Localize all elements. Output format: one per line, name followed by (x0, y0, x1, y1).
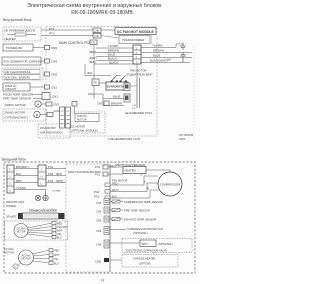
wire A3 (14, 182, 38, 184)
svg-text:PG4: PG4 (94, 190, 100, 194)
svg-text:UNIT: UNIT (179, 137, 186, 141)
svg-text:BLACK(WHT): BLACK(WHT) (150, 59, 167, 63)
svg-text:PIPE TEMP. SENSOR: PIPE TEMP. SENSOR (3, 97, 31, 101)
svg-text:CN5: CN5 (51, 73, 57, 77)
svg-text:НЕ ИЗМЕНЯЕМ ПОЗ.1: НЕ ИЗМЕНЯЕМ ПОЗ.1 (125, 111, 153, 115)
wire L2 brown (96, 52, 133, 54)
wire display to CN2 (30, 86, 45, 88)
svg-text:Внутренний блок: Внутренний блок (3, 18, 32, 22)
svg-text:BLUE: BLUE (113, 95, 120, 99)
svg-text:WHT: WHT (112, 188, 118, 192)
ground G2 (180, 53, 186, 63)
svg-text:CRANKCASE HEATER: CRANKCASE HEATER (29, 209, 57, 213)
evaporator box (106, 82, 128, 90)
svg-text:(WHT): (WHT) (56, 180, 63, 183)
PCB right edge bus (109, 164, 111, 272)
svg-text:EVAPORATOR: EVAPORATOR (107, 84, 126, 88)
svg-text:PT2: PT2 (49, 32, 55, 36)
DC motor optional dashed box (70, 112, 105, 133)
wire jumper1 to CN9 (41, 60, 45, 62)
svg-text:EXHAUST TEMP. SENSOR: EXHAUST TEMP. SENSOR (124, 218, 156, 222)
svg-text:POWER BD: POWER BD (6, 46, 23, 50)
outdoor terminal block B (38, 165, 46, 186)
wire sensor box to PT connectors (41, 29, 93, 31)
fan motor pin labels (132, 105, 136, 110)
svg-text:MOTOR: MOTOR (77, 118, 87, 122)
svg-text:BLU: BLU (16, 172, 21, 176)
svg-text:TRANSFORMER: TRANSFORMER (122, 38, 144, 42)
connector CN5 (45, 72, 50, 76)
svg-text:BLU: BLU (112, 194, 117, 198)
svg-text:V: V (144, 179, 146, 183)
wire V white (105, 190, 110, 194)
svg-text:7M: 7M (93, 81, 97, 85)
svg-text:YL/GRN: YL/GRN (152, 44, 162, 48)
dc fan dashed box (5, 221, 68, 240)
svg-text:CN: CN (91, 41, 95, 45)
svg-text:COMPRESSOR PROTECTOR: COMPRESSOR PROTECTOR (127, 227, 163, 231)
svg-text:(OPTIONAL MODULE): (OPTIONAL MODULE) (71, 129, 98, 133)
wire R4 black (141, 62, 190, 64)
wire B3 (46, 182, 66, 184)
transformer box (119, 36, 150, 44)
svg-text:FAN MOTOR: FAN MOTOR (130, 69, 147, 73)
svg-text:WHT: WHT (54, 254, 60, 257)
ac fan terminal boxes (49, 249, 53, 252)
wire L1 yl/grn (96, 47, 133, 49)
svg-text:ИК ПРИЕМНИК ДИСПЛ.: ИК ПРИЕМНИК ДИСПЛ. (5, 29, 37, 33)
svg-text:YL/GRN: YL/GRN (16, 186, 26, 190)
svg-text:CN5: CN5 (96, 229, 102, 233)
svg-text:RED: RED (54, 250, 59, 253)
svg-text:RED: RED (110, 165, 116, 169)
svg-text:CN2: CN2 (96, 219, 102, 223)
svg-text:CN9: CN9 (51, 60, 57, 64)
fuse in sensor box (7, 34, 36, 36)
svg-text:COMPRESSOR: COMPRESSOR (160, 183, 180, 187)
swing motor optional dashed box (3, 109, 53, 121)
thermal switch S2 (117, 76, 127, 83)
svg-text:CN2: CN2 (94, 35, 99, 38)
dc fan terminal boxes (52, 222, 56, 225)
jumper box 1 (2, 57, 41, 65)
svg-text:YL/GRN: YL/GRN (108, 44, 118, 48)
svg-text:ЭЛ.НАГР.: ЭЛ.НАГР. (6, 216, 17, 219)
compressor (158, 172, 182, 196)
svg-text:AC FAN: AC FAN (4, 247, 13, 251)
svg-text:FOR DC: FOR DC (77, 114, 87, 118)
wire air clean to CN5 (43, 73, 45, 75)
connector CN2 (45, 85, 50, 89)
fan motor assembly (124, 78, 140, 108)
wire B1 (46, 168, 66, 170)
svg-text:C: C (14, 265, 16, 269)
ac fan wires (33, 250, 49, 254)
connector CN6 (45, 46, 50, 50)
wire black down (94, 63, 137, 65)
svg-text:PG1: PG1 (48, 165, 54, 169)
svg-text:PG3: PG3 (48, 179, 54, 183)
connector CN8b (72, 102, 77, 107)
wire R2 brown (141, 52, 192, 54)
display circuit box (3, 83, 30, 91)
ion module dashed box (38, 124, 70, 138)
svg-text:CN4: CN4 (96, 201, 102, 205)
svg-text:INDOOR UNIT: INDOOR UNIT (6, 200, 25, 204)
svg-text:(BLK): (BLK) (89, 60, 96, 64)
svg-text:PG2: PG2 (95, 173, 101, 177)
wire R3 blue (141, 57, 192, 59)
ac fan motor circle (13, 250, 34, 269)
svg-text:THE HEADBOARD CAST: THE HEADBOARD CAST (108, 137, 141, 141)
outdoor unit boundary line (193, 46, 195, 140)
svg-text:SWING MOTOR: SWING MOTOR (5, 103, 26, 107)
svg-text:Электрическая схема внутренних: Электрическая схема внутренних и наружны… (27, 3, 161, 9)
earth symbol E2 (43, 190, 49, 201)
svg-text:AIR CLEAN MODULE: AIR CLEAN MODULE (5, 70, 31, 74)
wire fuse to evaporator (99, 82, 106, 84)
svg-text:DC FAN MOT MODULE: DC FAN MOT MODULE (117, 30, 154, 34)
wire PT to modules (101, 29, 115, 31)
dc fan motor circle (14, 224, 28, 238)
wire transformer stub (151, 35, 153, 45)
swing motor (5, 101, 52, 107)
svg-text:BROWN: BROWN (153, 49, 164, 53)
svg-text:CHASSIS HEATER: CHASSIS HEATER (133, 257, 156, 261)
dc fan wires (28, 223, 53, 228)
wire power board to CN6 (33, 47, 45, 49)
svg-text:PG2: PG2 (48, 172, 54, 176)
svg-text:⏚: ⏚ (9, 188, 12, 193)
svg-text:COMPRESSOR TEMP. SENSOR: COMPRESSOR TEMP. SENSOR (124, 200, 163, 204)
main control PCB dashed outline (46, 27, 157, 137)
svg-text:ИОНИЗАТОР: ИОНИЗАТОР (40, 126, 56, 130)
svg-text:CN11: CN11 (95, 260, 102, 264)
svg-text:ELECTRONIC EXPANSION VALVE: ELECTRONIC EXPANSION VALVE (126, 249, 167, 253)
svg-text:CN1: CN1 (52, 95, 58, 99)
svg-text:SWING MOTOR: SWING MOTOR (5, 111, 26, 115)
connector CN10 (90, 40, 97, 45)
power module header box (115, 28, 156, 35)
heater box (123, 167, 146, 174)
wire W blue (105, 196, 110, 200)
svg-text:MOTOR: MOTOR (4, 251, 14, 255)
wire A2 (14, 175, 38, 177)
wire A1 (14, 168, 38, 170)
main source board dashed outline (66, 164, 110, 272)
svg-text:CN4: CN4 (54, 109, 60, 113)
svg-text:ЭЛ.ДВИГАТЕЛЬ ВЕНТ.: ЭЛ.ДВИГАТЕЛЬ ВЕНТ. (126, 73, 153, 77)
svg-text:CN2: CN2 (51, 86, 57, 90)
wire brown mid (103, 105, 124, 107)
svg-text:MOTOR: MOTOR (17, 231, 26, 234)
svg-text:HEATER: HEATER (125, 169, 136, 173)
capacitor circle (13, 264, 18, 269)
svg-text:(OPTIONAL): (OPTIONAL) (158, 242, 173, 246)
connector header block 1 (60, 107, 65, 128)
svg-text:(OPTIONAL): (OPTIONAL) (133, 231, 148, 235)
svg-text:PT1: PT1 (49, 27, 55, 31)
svg-text:YEL: YEL (54, 258, 59, 261)
wire R1 yl/grn to ground (141, 44, 176, 48)
connector header block 2 (66, 107, 71, 128)
svg-text:PG3: PG3 (94, 195, 100, 199)
svg-text:CN3: CN3 (96, 210, 102, 214)
svg-text:PG1: PG1 (95, 165, 101, 169)
svg-text:BLU: BLU (57, 237, 62, 240)
wire L3 blue (96, 56, 133, 58)
svg-text:POWER: POWER (6, 204, 16, 208)
wire A4 earth (14, 189, 46, 191)
thermal switch S1 (111, 76, 118, 83)
svg-text:BLUE: BLUE (153, 54, 160, 58)
svg-text:PIPE TEMP. SENSOR: PIPE TEMP. SENSOR (124, 209, 150, 213)
svg-text:BH1: BH1 (88, 71, 94, 75)
outdoor terminal block A (7, 165, 14, 193)
svg-text:BLACK: BLACK (109, 60, 118, 64)
svg-text:MOTOR: MOTOR (22, 258, 31, 261)
svg-text:(AIR FRESH MOD.): (AIR FRESH MOD.) (40, 131, 63, 135)
svg-text:DC MOTOR: DC MOTOR (71, 125, 85, 129)
svg-text:HOA: HOA (88, 92, 94, 96)
svg-text:RED: RED (112, 181, 118, 185)
svg-text:BRN: BRN (16, 179, 22, 183)
ground G1 (176, 43, 186, 50)
wire U red (105, 183, 110, 187)
svg-text:CN8: CN8 (94, 30, 99, 33)
wire to heater (108, 166, 123, 168)
outdoor unit dashed outline (4, 162, 195, 273)
sensor box (IR receiver/display) (3, 27, 41, 41)
svg-text:(OPTIONAL/WHT): (OPTIONAL/WHT) (5, 116, 28, 120)
svg-text:(OPTION): (OPTION) (139, 262, 151, 266)
svg-text:[ION GEN. JUMPER]: [ION GEN. JUMPER] (5, 75, 30, 79)
svg-text:⏚: ⏚ (136, 60, 139, 64)
svg-text:4WV: 4WV (142, 242, 148, 246)
svg-text:CN7: CN7 (97, 102, 103, 106)
earth symbol E1 (35, 195, 41, 201)
svg-text:L-N: L-N (132, 105, 136, 107)
svg-text:CN3: CN3 (53, 103, 59, 107)
svg-text:[ION GENERATOR JUMPER]: [ION GENERATOR JUMPER] (4, 59, 41, 63)
svg-text:(WHT): (WHT) (89, 56, 97, 60)
wire heater to compressor (146, 169, 170, 171)
svg-text:CIRCUIT: CIRCUIT (5, 87, 17, 91)
svg-text:(BLK): (BLK) (56, 173, 62, 176)
svg-text:12: 12 (101, 278, 105, 282)
svg-text:BLK(WHT): BLK(WHT) (16, 165, 29, 169)
svg-text:N: N (41, 175, 43, 179)
svg-text:HEATER: HEATER (5, 37, 16, 41)
svg-text:11H: 11H (167, 59, 171, 62)
svg-text:RK-09-180M/RK-09-180MB: RK-09-180M/RK-09-180MB (71, 10, 133, 16)
terminal block indoor (133, 45, 141, 64)
crankcase heater strip (6, 209, 65, 220)
svg-text:CN8: CN8 (96, 243, 102, 247)
air clean dashed box (2, 68, 43, 80)
svg-text:U: U (141, 172, 143, 176)
wire B2 (46, 175, 66, 177)
svg-text:BLU: BLU (54, 263, 59, 266)
wire heater branch (84, 64, 86, 76)
fuse box F1 (92, 79, 99, 86)
wire L4 black (96, 60, 133, 62)
svg-text:MAIN CONTROL PCB: MAIN CONTROL PCB (59, 41, 91, 45)
power board box (3, 44, 33, 51)
svg-text:BROWN: BROWN (111, 102, 122, 106)
connector CN9 (45, 59, 50, 63)
svg-text:CN6: CN6 (51, 46, 57, 50)
svg-text:YL/GRN: YL/GRN (52, 191, 61, 193)
sensor plug (33, 94, 42, 96)
wire bus vertical (93, 45, 95, 100)
svg-text:1-2: 1-2 (132, 108, 136, 110)
svg-text:Внешний блок: Внешний блок (2, 158, 26, 162)
svg-text:(BRN): (BRN) (89, 50, 96, 54)
svg-text:W: W (147, 186, 150, 190)
